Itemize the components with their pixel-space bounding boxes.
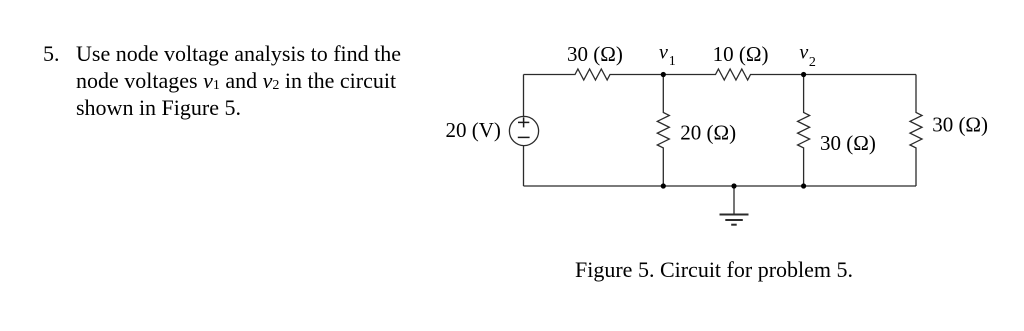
- svg-text:30 (Ω): 30 (Ω): [567, 42, 623, 66]
- svg-text:30 (Ω): 30 (Ω): [820, 131, 876, 155]
- svg-text:v: v: [799, 42, 808, 64]
- svg-text:2: 2: [809, 55, 816, 70]
- svg-text:v: v: [659, 42, 668, 64]
- svg-text:1: 1: [669, 54, 676, 69]
- svg-text:20 (Ω): 20 (Ω): [680, 121, 736, 145]
- svg-text:10 (Ω): 10 (Ω): [713, 42, 769, 66]
- svg-text:20 (V): 20 (V): [446, 118, 501, 142]
- svg-text:30 (Ω): 30 (Ω): [932, 112, 988, 136]
